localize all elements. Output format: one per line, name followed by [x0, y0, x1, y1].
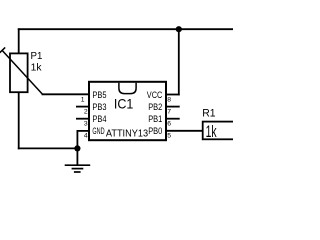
wire top supply rail — [19, 28, 233, 30]
svg-text:1: 1 — [81, 96, 85, 103]
svg-text:PB5: PB5 — [92, 90, 106, 100]
wire junction up to GND pin — [76, 131, 78, 149]
IC1 DIP notch — [119, 83, 136, 94]
svg-text:PB2: PB2 — [148, 102, 162, 112]
ground symbol (earth) — [65, 165, 91, 172]
junction node at GND net — [74, 145, 80, 151]
svg-text:5: 5 — [167, 133, 171, 140]
wire PB2 pin stub (pin 7) — [166, 106, 179, 108]
svg-text:7: 7 — [167, 108, 171, 115]
svg-text:PB0: PB0 — [148, 126, 162, 136]
wire PB0 (pin 5) to R1 — [166, 130, 203, 132]
svg-text:4: 4 — [84, 133, 88, 140]
svg-text:VCC: VCC — [147, 90, 163, 100]
wire left vertical drop to P1 top — [18, 29, 20, 53]
potentiometer P1 wiper arrow — [0, 47, 42, 94]
svg-text:P1: P1 — [31, 51, 43, 62]
potentiometer P1 body — [10, 53, 28, 92]
svg-text:ATTINY13: ATTINY13 — [106, 129, 149, 140]
svg-text:PB1: PB1 — [148, 114, 162, 124]
resistor R1 body — [203, 122, 235, 140]
wire PB4 pin stub (pin 3) — [77, 118, 90, 120]
wire ground stem — [76, 148, 78, 165]
junction node at top rail / VCC — [176, 26, 182, 32]
svg-text:6: 6 — [167, 121, 171, 128]
wire GND pin stub (pin 4) — [77, 130, 90, 132]
wire VCC vertical drop — [178, 29, 180, 94]
svg-text:2: 2 — [84, 108, 88, 115]
svg-text:IC1: IC1 — [114, 95, 134, 111]
wire P1 bottom vertical — [18, 92, 20, 148]
wire wiper to PB5 (pin 1) — [43, 93, 90, 95]
svg-text:3: 3 — [84, 121, 88, 128]
wire bottom horizontal to junction — [19, 147, 78, 149]
svg-text:1k: 1k — [31, 62, 43, 73]
svg-text:PB4: PB4 — [92, 114, 106, 124]
wire PB3 pin stub (pin 2) — [77, 106, 90, 108]
svg-text:PB3: PB3 — [92, 102, 106, 112]
svg-text:8: 8 — [167, 96, 171, 103]
op IC1 ATTINY13 body — [89, 82, 166, 140]
svg-text:1k: 1k — [206, 122, 217, 141]
svg-text:GND: GND — [92, 126, 105, 136]
wire VCC pin stub (pin 8) — [166, 94, 179, 96]
svg-text:R1: R1 — [202, 108, 215, 120]
wire PB1 pin stub (pin 6) — [166, 118, 179, 120]
